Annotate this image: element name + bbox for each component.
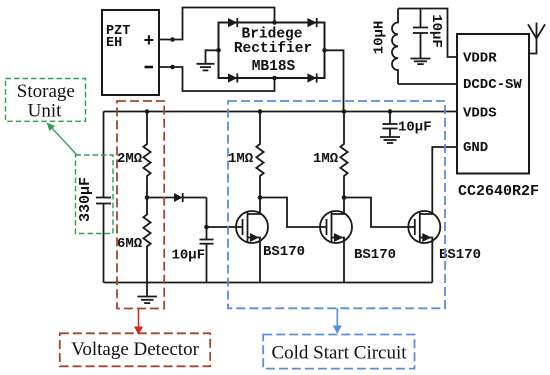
node bridge left: [216, 48, 221, 53]
svg-text:Voltage Detector: Voltage Detector: [71, 339, 200, 360]
blue dashed cold-start box: [228, 101, 445, 308]
transistor Q1 BS170: [236, 198, 305, 283]
CC2640R2F chip: [457, 34, 539, 200]
svg-text:EH: EH: [106, 36, 122, 51]
svg-text:+: +: [144, 32, 155, 52]
inductor L1 10uH: [372, 9, 399, 85]
capacitor 10uF cold-start timing: [172, 227, 214, 283]
svg-text:Storage: Storage: [17, 81, 75, 102]
left storage rail: [103, 112, 105, 283]
svg-text:330µF: 330µF: [77, 177, 94, 222]
node on - wire: [170, 65, 175, 70]
node drain2: [342, 195, 347, 200]
diode bottom-right of bridge: [307, 73, 316, 82]
node drain1: [258, 195, 263, 200]
svg-text:MB18S: MB18S: [252, 59, 296, 75]
svg-text:Cold Start Circuit: Cold Start Circuit: [271, 342, 407, 363]
resistor R1 2M: [117, 112, 151, 198]
capacitor 10uF at VDDR: [413, 9, 444, 59]
bottom rail: [104, 282, 433, 284]
bridge rectifier MB18S box: [219, 23, 325, 79]
capacitor 10uF VDDS: [383, 112, 432, 137]
svg-text:10µF: 10µF: [172, 248, 206, 264]
blue arrow: [333, 308, 342, 334]
diode top-left of bridge: [228, 18, 237, 27]
red dashed voltage-detector box: [117, 101, 164, 309]
antenna: [528, 23, 545, 54]
node divider mid: [145, 195, 150, 200]
diode top-right of bridge: [307, 18, 316, 27]
svg-text:GND: GND: [463, 140, 488, 156]
svg-text:2MΩ: 2MΩ: [117, 151, 143, 167]
ground below top 10uF: [411, 59, 431, 65]
svg-text:10µF: 10µF: [428, 14, 444, 48]
wire drain2 to M3 gate: [344, 198, 415, 228]
green arrow: [47, 123, 78, 156]
svg-text:DCDC-SW: DCDC-SW: [463, 77, 522, 93]
node bridge bottom: [272, 76, 277, 81]
transistor Q3 BS170: [408, 147, 481, 283]
svg-text:1MΩ: 1MΩ: [228, 151, 254, 167]
svg-text:6MΩ: 6MΩ: [117, 236, 143, 252]
ground below VDDS cap: [380, 137, 400, 143]
VDDS top rail: [104, 111, 458, 113]
svg-text:BS170: BS170: [263, 244, 305, 260]
diode D5 divider to gate: [147, 193, 207, 202]
node gate1: [204, 225, 209, 230]
svg-text:CC2640R2F: CC2640R2F: [458, 183, 539, 200]
diode bottom-left of bridge: [228, 73, 237, 82]
node bridge top: [272, 20, 277, 25]
resistor R4 1M: [313, 112, 348, 198]
wire inductor bottom to DCDC-SW: [398, 83, 457, 85]
capacitor C-storage 330uF: [77, 177, 111, 222]
node rail x344: [342, 109, 347, 114]
node on + wire: [170, 37, 175, 42]
wire PZT+ to bridge top: [159, 8, 275, 40]
PZT EH harvester block: [102, 10, 159, 95]
ground at bridge left: [197, 50, 219, 70]
wire bridge output to VDDS rail: [325, 50, 344, 111]
node rail x390: [388, 109, 393, 114]
node bridge right: [322, 48, 327, 53]
svg-text:10µF: 10µF: [398, 120, 432, 136]
node rail x260: [258, 109, 263, 114]
wire node to M1 gate: [207, 226, 243, 228]
node rail x147: [145, 109, 150, 114]
svg-text:VDDS: VDDS: [463, 106, 497, 122]
resistor R2 6M: [117, 198, 151, 297]
resistor R3 1M: [228, 112, 264, 198]
svg-text:Unit: Unit: [28, 100, 63, 121]
wire PZT- to bridge bottom: [159, 67, 275, 91]
red dashed voltage-detector label box: [60, 333, 210, 366]
wire diode to gate node: [206, 198, 208, 228]
svg-text:1MΩ: 1MΩ: [313, 151, 339, 167]
red arrow: [134, 309, 143, 336]
ground voltage detector: [138, 297, 158, 304]
transistor Q2 BS170: [320, 198, 396, 283]
svg-text:10µH: 10µH: [372, 21, 388, 55]
svg-text:Rectifier: Rectifier: [234, 41, 312, 57]
svg-text:BS170: BS170: [354, 247, 396, 263]
blue dashed cold-start label box: [263, 335, 414, 369]
green dashed box around 330uF: [76, 155, 114, 234]
wire drain1 to M2 gate: [260, 198, 327, 228]
green dashed storage-unit label box: [6, 79, 86, 122]
svg-text:VDDR: VDDR: [463, 51, 497, 67]
wire inductor top to VDDR: [398, 9, 457, 58]
